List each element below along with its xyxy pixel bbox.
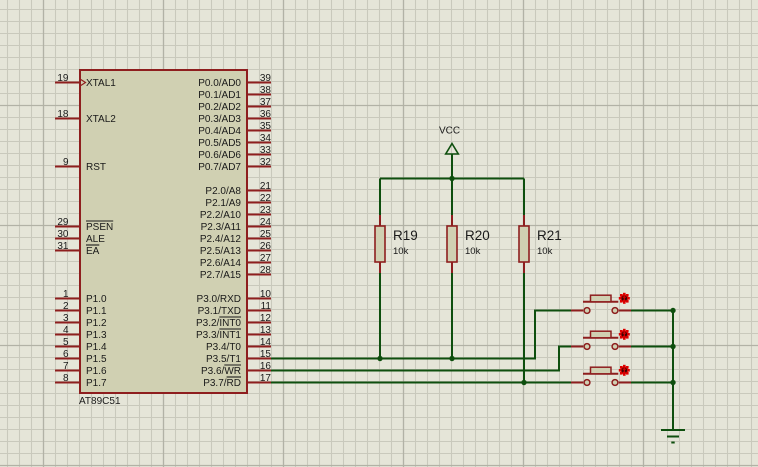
svg-text:P3.3/INT1: P3.3/INT1 [196,330,241,341]
svg-text:R20: R20 [465,228,490,243]
svg-text:RST: RST [86,162,106,173]
svg-text:P0.5/AD5: P0.5/AD5 [198,138,241,149]
svg-text:P0.7/AD7: P0.7/AD7 [198,162,241,173]
svg-text:XTAL2: XTAL2 [86,114,116,125]
svg-text:VCC: VCC [439,126,460,137]
svg-text:P1.5: P1.5 [86,354,107,365]
svg-text:P3.1/TXD: P3.1/TXD [198,306,241,317]
svg-text:P3.7/RD: P3.7/RD [203,378,241,389]
svg-text:P1.6: P1.6 [86,366,107,377]
svg-text:P2.7/A15: P2.7/A15 [200,270,242,281]
svg-text:P0.3/AD3: P0.3/AD3 [198,114,241,125]
svg-text:P0.0/AD0: P0.0/AD0 [198,78,241,89]
svg-text:P2.3/A11: P2.3/A11 [201,222,242,233]
svg-text:P0.1/AD1: P0.1/AD1 [198,90,241,101]
svg-text:P1.1: P1.1 [86,306,107,317]
svg-text:P1.0: P1.0 [86,294,107,305]
svg-text:P3.2/INT0: P3.2/INT0 [196,318,241,329]
svg-text:P3.6/WR: P3.6/WR [201,366,241,377]
svg-text:P1.4: P1.4 [86,342,107,353]
svg-text:P3.0/RXD: P3.0/RXD [197,294,241,305]
svg-text:R21: R21 [537,228,562,243]
svg-text:10k: 10k [393,246,409,257]
svg-text:P2.0/A8: P2.0/A8 [205,186,241,197]
svg-text:P1.2: P1.2 [86,318,107,329]
svg-text:10k: 10k [465,246,481,257]
svg-text:AT89C51: AT89C51 [79,396,121,407]
svg-text:EA: EA [86,246,100,257]
svg-text:P2.4/A12: P2.4/A12 [200,234,242,245]
svg-text:10k: 10k [537,246,553,257]
svg-text:ALE: ALE [86,234,105,245]
svg-text:P0.2/AD2: P0.2/AD2 [198,102,241,113]
svg-text:P0.6/AD6: P0.6/AD6 [198,150,241,161]
svg-text:PSEN: PSEN [86,222,113,233]
svg-text:XTAL1: XTAL1 [86,78,116,89]
svg-text:P2.1/A9: P2.1/A9 [205,198,241,209]
svg-text:P0.4/AD4: P0.4/AD4 [198,126,241,137]
svg-text:P1.7: P1.7 [86,378,107,389]
svg-text:P2.6/A14: P2.6/A14 [200,258,242,269]
svg-text:P2.2/A10: P2.2/A10 [200,210,242,221]
svg-text:P1.3: P1.3 [86,330,107,341]
svg-text:R19: R19 [393,228,418,243]
svg-text:P3.5/T1: P3.5/T1 [206,354,241,365]
svg-text:P3.4/T0: P3.4/T0 [206,342,241,353]
svg-text:P2.5/A13: P2.5/A13 [200,246,242,257]
